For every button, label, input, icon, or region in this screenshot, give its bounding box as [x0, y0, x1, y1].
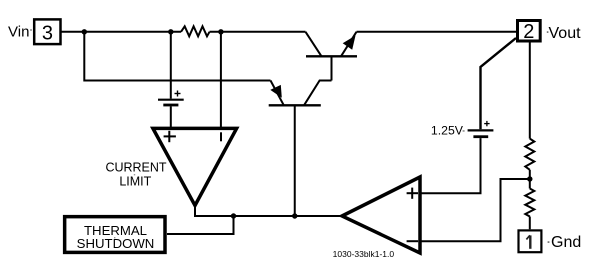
svg-text:Vout: Vout	[549, 25, 582, 42]
pin 3 box	[34, 19, 60, 44]
svg-text:SHUTDOWN: SHUTDOWN	[77, 236, 155, 251]
svg-text:Vin: Vin	[8, 24, 29, 41]
wire resistor to Q1 collector	[210, 31, 306, 33]
wire current source to current-limit amp + input	[170, 106, 172, 127]
svg-text:1030-33blk1-1.0: 1030-33blk1-1.0	[333, 249, 395, 259]
resistor Rsense (top horizontal)	[181, 26, 210, 36]
speck before Vout	[547, 31, 549, 33]
svg-text:CURRENT: CURRENT	[105, 161, 166, 175]
resistor R1 (upper divider)	[525, 139, 534, 170]
node E junction dot Q2 base tie	[292, 213, 297, 218]
svg-text:2: 2	[523, 21, 534, 43]
transistor Q2 (lower)	[269, 81, 321, 217]
op-amp U1 current limit (points down)	[153, 128, 237, 205]
speck after 1.25V	[463, 130, 465, 132]
wire from node A down and right to Q2 emitter	[84, 32, 270, 81]
svg-text:1.25V: 1.25V	[431, 124, 464, 138]
pin 1 box	[519, 230, 542, 252]
transistor Q1 (top NPN)	[306, 32, 358, 81]
svg-text:3: 3	[42, 22, 53, 44]
wire diagonal from pin2 to 1.25V reference	[481, 38, 517, 129]
node A junction dot at x=84	[82, 29, 87, 34]
wire pin2 down to divider	[529, 43, 531, 139]
node F divider midpoint dot	[527, 176, 532, 181]
wire battery to error amp + input	[420, 138, 481, 193]
speck above SHUTDOWN	[114, 237, 115, 238]
battery 1.25V reference	[468, 121, 494, 137]
wire R2 to pin 1	[529, 217, 531, 230]
wire node C down to current-limit amp - input	[220, 32, 222, 127]
wire Q1 base to Q2 collector	[304, 81, 332, 106]
pin 2 box	[518, 21, 541, 44]
svg-text:LIMIT: LIMIT	[119, 175, 151, 189]
wire Q1 emitter to pin 2	[357, 31, 517, 33]
resistor R2 (lower divider)	[525, 189, 534, 217]
svg-text:Gnd: Gnd	[551, 234, 581, 251]
speck before Gnd	[548, 241, 550, 243]
node C junction dot right of resistor	[218, 29, 223, 34]
wire top rail from pin3 to resistor	[61, 31, 181, 33]
wire current-limit output / base drive bus	[195, 206, 342, 217]
wire node B down to current source	[170, 32, 172, 99]
wire between divider resistors	[529, 170, 531, 189]
op-amp U2 error amplifier (points left)	[342, 177, 420, 253]
speck above LIMIT	[134, 174, 135, 175]
current source battery symbol	[158, 91, 184, 106]
label CURRENT LIMIT	[105, 161, 166, 189]
thermal shutdown block	[65, 217, 165, 253]
node B junction dot left of resistor	[168, 29, 173, 34]
speck after Vin	[30, 29, 31, 31]
wire error amp - input from divider	[420, 179, 530, 241]
node D junction dot thermal shutdown tie	[231, 213, 236, 218]
wire thermal shutdown to node D	[167, 216, 234, 234]
